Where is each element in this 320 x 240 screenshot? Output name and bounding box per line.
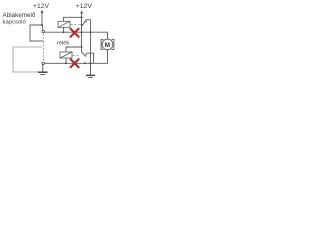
svg-text:+12V: +12V <box>33 3 50 10</box>
fault X2 <box>71 59 79 67</box>
relay contact 1 lever <box>82 20 87 27</box>
fault X1 <box>71 29 79 37</box>
wire coil1 bottom pin <box>63 27 65 32</box>
svg-text:relék: relék <box>57 40 69 46</box>
wire coil1 top to +12V right <box>64 17 82 21</box>
node dot V2 top <box>81 16 83 18</box>
wire coil2 bottom pin <box>65 58 67 63</box>
relay contact 2 lever <box>82 47 87 57</box>
supply arrow right <box>81 12 83 18</box>
node: junction dot at left supply <box>41 24 43 26</box>
wire W1 switch to motor top <box>45 32 108 39</box>
label Ablakemelő kapcsoló <box>3 12 36 25</box>
motor M <box>101 39 114 50</box>
node dot contact1 pivot <box>81 24 83 26</box>
mechanical link coil1-contact1 (dashed) <box>71 24 80 26</box>
svg-text:Ablakemelő: Ablakemelő <box>3 12 36 19</box>
node dot V3 on W1 <box>90 31 92 33</box>
mechanical link coil2-contact2 (dashed) <box>73 55 80 57</box>
svg-text:M: M <box>105 42 110 49</box>
switch enclosure outline (grey) <box>13 47 43 72</box>
ground 2 <box>86 63 95 77</box>
wire from supply into switch <box>30 25 43 41</box>
node dot coil1 bottom <box>63 31 65 33</box>
wire supply to connector 1 <box>41 25 44 30</box>
wire coil2 top to V2 <box>66 47 82 52</box>
svg-text:kapcsoló: kapcsoló <box>3 19 27 25</box>
node dot V2 on W1 <box>81 31 83 33</box>
ground 1 <box>38 65 48 75</box>
wire W2 motor bottom <box>45 50 108 63</box>
wire contact1 fixed to V3 <box>86 20 91 64</box>
enclosure boundary dashed <box>43 34 45 62</box>
connector terminal circle 2 <box>42 62 45 65</box>
wire contact2 fixed to W2 <box>86 53 94 63</box>
relay coil K2 <box>60 52 72 58</box>
node dot contact2 on W2 <box>84 62 86 64</box>
contact 1 fixed stub <box>85 20 87 23</box>
node dot coil2 bottom <box>65 62 67 64</box>
connector terminal circle 1 <box>42 30 45 32</box>
supply arrow left <box>41 11 43 25</box>
contact 2 fixed stub <box>85 53 87 56</box>
relay coil K1 <box>58 21 70 27</box>
node dot ground drop on W2 <box>90 62 92 64</box>
svg-text:+12V: +12V <box>76 3 93 10</box>
wire V2 vertical <box>81 17 83 47</box>
node dot V2 to coil2 wire <box>81 46 83 48</box>
